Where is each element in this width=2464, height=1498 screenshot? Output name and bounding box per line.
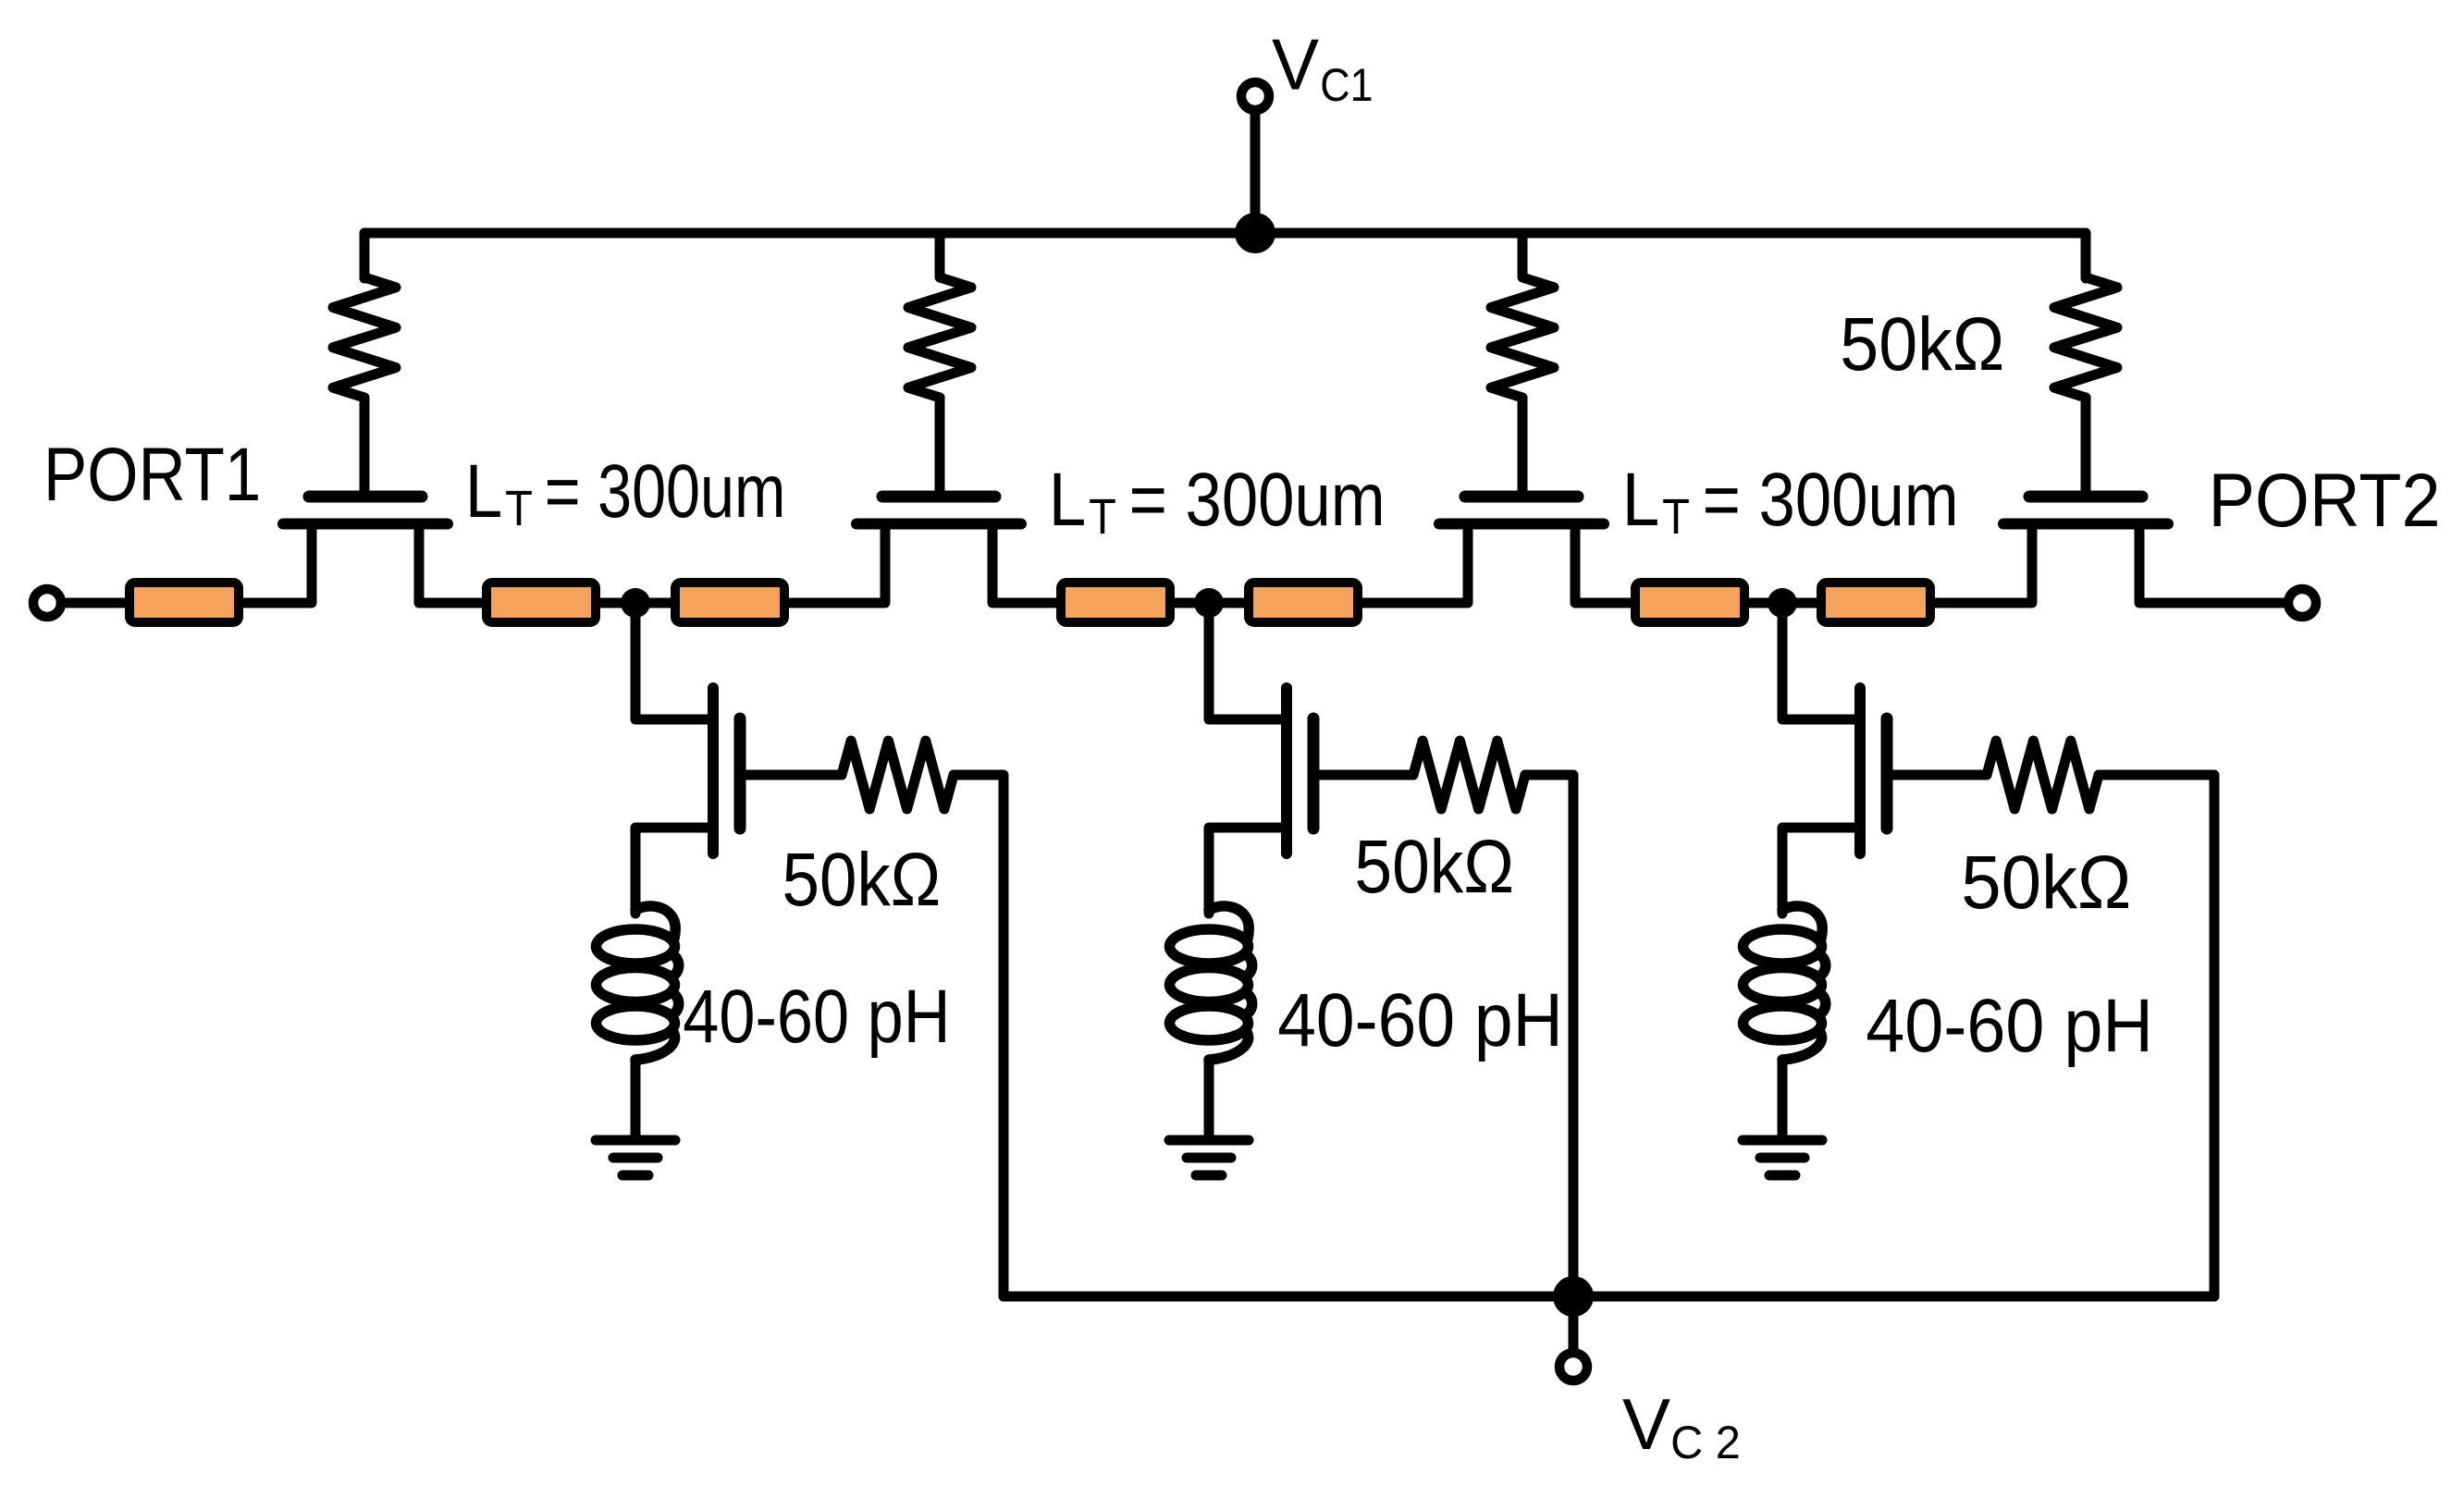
wire L3 to ground — [1778, 1060, 1788, 1136]
wire node B to Q6 drain — [1209, 603, 1287, 719]
terminal VC1 — [1241, 82, 1269, 110]
wire TL2 to node A — [600, 598, 671, 608]
svg-text:PORT1: PORT1 — [43, 433, 261, 517]
svg-text:50kΩ: 50kΩ — [1840, 302, 2004, 387]
svg-text:C1: C1 — [1320, 59, 1373, 111]
wire TL4 to node B — [1175, 598, 1244, 608]
transistor Q7 channel bar — [1854, 688, 1866, 853]
wire TL1 to Q1 drain — [243, 524, 312, 604]
terminal VC2 — [1559, 1353, 1587, 1381]
svg-text:50kΩ: 50kΩ — [1354, 825, 1514, 909]
wire Q4 source to PORT2 — [2139, 524, 2285, 604]
transistor Q3 channel bar — [1439, 519, 1604, 530]
svg-text:T: T — [1089, 489, 1116, 545]
wire R6 to VC2 rail — [1525, 775, 1573, 1296]
transmission line TL1 — [129, 583, 239, 622]
svg-text:L: L — [465, 449, 503, 534]
wire Q3 source to TL6 — [1575, 524, 1631, 604]
terminal PORT1 — [33, 589, 61, 617]
transistor Q3 series FET gate bar — [1465, 491, 1578, 503]
transistor Q6 shunt FET gate bar — [1308, 718, 1320, 829]
wire Q7 source to inductor L3 — [1782, 828, 1860, 914]
transistor Q2 channel bar — [856, 519, 1021, 530]
inductor L3 40-60pH — [1782, 906, 1822, 939]
resistor R4 50k gate bias — [2054, 233, 2117, 398]
transistor Q4 channel bar — [2003, 519, 2168, 530]
junction dot VC2 — [1553, 1276, 1594, 1317]
transistor Q5 channel bar — [708, 688, 719, 853]
resistor R1 50k gate bias — [333, 233, 396, 398]
resistor R5 50k shunt gate — [842, 741, 954, 809]
transistor Q6 channel bar — [1281, 688, 1292, 853]
wire L1 to ground — [631, 1060, 641, 1136]
transistor Q2 series FET gate bar — [882, 491, 995, 503]
svg-text:40-60 pH: 40-60 pH — [1866, 984, 2153, 1068]
svg-text:V: V — [1622, 1383, 1670, 1465]
transmission line TL3 — [675, 583, 784, 622]
wire R5 to VC2 rail — [954, 775, 1004, 1296]
resistor R2 50k gate bias — [908, 233, 971, 398]
wire Q6 source to inductor L2 — [1209, 828, 1287, 914]
transmission line TL5 — [1249, 583, 1358, 622]
wire TL6 to node C — [1749, 598, 1817, 608]
wire node C to Q7 drain — [1782, 603, 1860, 719]
resistor R3 50k gate bias — [1491, 233, 1554, 398]
wire Q6 gate — [1313, 770, 1413, 780]
wire TL3 to Q2 drain — [789, 524, 885, 604]
node A junction dot — [621, 588, 650, 618]
svg-text:T: T — [1662, 489, 1690, 545]
wire TL7 to Q4 drain — [1935, 524, 2032, 604]
svg-text:C 2: C 2 — [1670, 1417, 1741, 1468]
transmission line TL4 — [1061, 583, 1170, 622]
svg-text:40-60 pH: 40-60 pH — [1277, 978, 1563, 1062]
inductor L1 40-60pH — [635, 906, 675, 939]
wire R1 to gate — [360, 398, 370, 493]
wire Q1 source to TL2 — [419, 524, 482, 604]
svg-text:T: T — [505, 481, 533, 536]
wire VC2 stub — [1569, 1296, 1579, 1352]
wire Q5 source to inductor L1 — [635, 828, 713, 914]
svg-text:50kΩ: 50kΩ — [782, 838, 942, 922]
svg-text:L: L — [1622, 458, 1660, 542]
wire R3 to gate — [1518, 398, 1528, 493]
wire R7 to VC2 rail — [2099, 775, 2214, 1296]
transistor Q7 shunt FET gate bar — [1881, 718, 1893, 829]
svg-text:V: V — [1272, 24, 1319, 105]
resistor R6 50k shunt gate — [1413, 741, 1525, 809]
node B junction dot — [1194, 588, 1224, 618]
wire TL5 to Q3 drain — [1362, 524, 1468, 604]
svg-text:= 300um: = 300um — [1703, 458, 1959, 542]
svg-text:= 300um: = 300um — [1129, 458, 1386, 542]
junction dot on VC1 rail — [1235, 213, 1275, 253]
wire PORT1 to TL1 — [61, 598, 125, 608]
svg-text:PORT2: PORT2 — [2209, 459, 2441, 543]
wire R4 to gate — [2081, 398, 2091, 493]
wire VC2 bottom rail — [1004, 1292, 2214, 1302]
transistor Q1 channel bar — [283, 519, 448, 530]
transmission line TL2 — [487, 583, 596, 622]
transmission line TL6 — [1635, 583, 1744, 622]
ground B — [1169, 1136, 1249, 1146]
transistor Q1 series FET gate bar — [309, 491, 422, 503]
node C junction dot — [1768, 588, 1797, 618]
svg-text:L: L — [1049, 458, 1087, 542]
wire R2 to gate — [935, 398, 945, 493]
ground C — [1743, 1136, 1822, 1146]
inductor L2 40-60pH — [1209, 906, 1249, 939]
wire Q5 gate — [740, 770, 842, 780]
svg-text:40-60 pH: 40-60 pH — [683, 975, 950, 1059]
ground A — [596, 1136, 675, 1146]
svg-text:= 300um: = 300um — [545, 449, 786, 534]
transmission line TL7 — [1821, 583, 1930, 622]
resistor R7 50k shunt gate — [1987, 741, 2099, 809]
wire node A to Q5 drain — [635, 603, 713, 719]
svg-text:50kΩ: 50kΩ — [1961, 841, 2131, 925]
wire L2 to ground — [1204, 1060, 1214, 1136]
wire VC1 stub — [1250, 111, 1261, 233]
wire top gate bias rail — [364, 233, 2086, 278]
wire Q2 source to TL4 — [992, 524, 1056, 604]
wire Q7 gate — [1887, 770, 1987, 780]
terminal PORT2 — [2288, 589, 2316, 617]
transistor Q4 series FET gate bar — [2029, 491, 2142, 503]
transistor Q5 shunt FET gate bar — [734, 718, 746, 829]
